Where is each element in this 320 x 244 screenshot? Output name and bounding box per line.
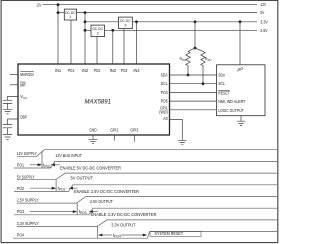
junction pullup split <box>194 47 197 50</box>
svg-text:MARGIN: MARGIN <box>20 72 34 77</box>
wire uP supply <box>239 22 241 65</box>
svg-text:PO1: PO1 <box>17 162 25 167</box>
svg-text:SCL: SCL <box>161 81 168 86</box>
svg-text:IN1: IN1 <box>55 68 62 73</box>
svg-text:DC-DC: DC-DC <box>92 27 103 31</box>
junction SDA pullup <box>187 74 190 77</box>
ref line tPD1 <box>41 151 43 168</box>
ref line tPD3 <box>76 203 78 215</box>
svg-text:PO2: PO2 <box>94 68 101 73</box>
junction 5V/IN2 <box>84 11 87 14</box>
ref line tPO4 <box>97 227 99 239</box>
wire 2.5V rail <box>105 29 258 31</box>
junction 3.3V/pullups <box>194 20 197 23</box>
junction 2.5V/IN3 <box>111 29 114 32</box>
wire SCL <box>170 83 217 85</box>
svg-text:5V OUTPUT: 5V OUTPUT <box>71 176 94 182</box>
svg-text:µP: µP <box>237 67 243 72</box>
svg-text:SDA: SDA <box>161 73 168 78</box>
svg-text:ENABLE 3.3V DC-DC CONVERTER: ENABLE 3.3V DC-DC CONVERTER <box>91 212 157 218</box>
svg-text:SYSTEM RESET: SYSTEM RESET <box>155 231 184 237</box>
svg-text:PO4: PO4 <box>17 233 25 238</box>
dc-dc converter 3 <box>119 17 133 29</box>
ref line tPD2 <box>55 180 57 192</box>
wire DC-DC2 input <box>85 29 91 31</box>
svg-text:PO2: PO2 <box>17 186 25 191</box>
capacitor C1 <box>3 100 12 103</box>
wire IN2 vertical <box>84 13 86 64</box>
wire A0 <box>170 119 183 140</box>
svg-text:ENABLE 5V DC-DC CONVERTER: ENABLE 5V DC-DC CONVERTER <box>60 166 121 172</box>
wire PO5/NMI <box>170 100 217 102</box>
ground uP <box>237 121 245 125</box>
svg-text:PO3: PO3 <box>121 68 128 73</box>
svg-text:PO5: PO5 <box>161 99 168 104</box>
IC U1 MAX5891 <box>18 64 170 135</box>
svg-text:12V: 12V <box>36 2 41 7</box>
svg-text:RESET: RESET <box>218 90 230 95</box>
svg-text:MR: MR <box>20 82 25 87</box>
svg-text:3.3V: 3.3V <box>260 19 268 24</box>
wire pullup feed <box>194 22 196 48</box>
svg-text:2: 2 <box>97 32 99 36</box>
svg-text:12V SUPPLY: 12V SUPPLY <box>17 151 37 156</box>
svg-text:2.5V OUTPUT: 2.5V OUTPUT <box>90 199 113 205</box>
svg-text:SDA: SDA <box>218 73 225 78</box>
junction DC-DC2 input tap <box>84 29 87 32</box>
ground DBP <box>3 134 12 139</box>
wire PO4/RESET <box>170 91 217 93</box>
svg-text:3.3V SUPPLY: 3.3V SUPPLY <box>17 221 39 226</box>
svg-text:IN2: IN2 <box>82 68 89 73</box>
svg-text:PO1: PO1 <box>68 68 75 73</box>
svg-text:2.5V: 2.5V <box>260 28 267 33</box>
svg-text:12V: 12V <box>260 2 266 7</box>
wire PO1 vertical <box>70 20 72 64</box>
wire 3.3V rail <box>132 21 257 23</box>
svg-text:1: 1 <box>69 15 71 19</box>
junction 3.3V/IN4 <box>135 20 138 23</box>
svg-text:DBP: DBP <box>20 115 27 120</box>
wire GPI1/LOGIC <box>170 109 217 111</box>
wire SDA <box>170 74 217 76</box>
capacitor C2 <box>3 125 12 128</box>
svg-text:3: 3 <box>124 24 126 28</box>
resistor RPU (SCL) <box>201 51 205 83</box>
svg-text:(WD): (WD) <box>159 110 168 115</box>
wire split to R left <box>188 48 195 51</box>
microprocessor uP <box>217 65 266 116</box>
svg-text:3.3V OUTPUT: 3.3V OUTPUT <box>111 222 135 228</box>
svg-text:SCL: SCL <box>218 81 225 86</box>
wire DC-DC3 input <box>85 21 119 23</box>
ground GND <box>89 139 97 143</box>
svg-text:MAX5891: MAX5891 <box>85 99 112 106</box>
wire uP ground <box>240 116 242 122</box>
svg-text:PO4: PO4 <box>161 90 168 95</box>
junction 12V/IN1 <box>57 3 60 6</box>
svg-text:A0: A0 <box>163 116 168 121</box>
wire DC-DC1 input <box>58 12 64 14</box>
svg-text:NMI, WD ALERT: NMI, WD ALERT <box>218 99 245 104</box>
wire 12V rail <box>43 4 258 6</box>
resistor RPU (SDA) <box>186 51 190 75</box>
svg-text:GND: GND <box>89 127 96 132</box>
svg-text:2.5V SUPPLY: 2.5V SUPPLY <box>17 198 39 203</box>
wire 5V rail <box>77 12 257 14</box>
wire PO3 vertical <box>123 29 125 64</box>
svg-text:GPI2: GPI2 <box>110 127 118 132</box>
ground VCC <box>3 109 12 114</box>
wire IN1 vertical <box>57 5 59 64</box>
svg-text:IN3: IN3 <box>110 68 117 73</box>
wire IN4 vertical <box>136 22 138 64</box>
dc-dc converter 1 <box>64 9 76 20</box>
junction DC-DC3 input tap <box>84 20 87 23</box>
svg-text:DC-DC: DC-DC <box>120 19 131 23</box>
junction SCL pullup <box>202 82 205 85</box>
wire IN3 vertical <box>112 30 114 64</box>
dc-dc converter 2 <box>91 25 105 36</box>
svg-text:IN4: IN4 <box>133 68 140 73</box>
wire PO2 vertical <box>96 37 98 64</box>
svg-text:5V SUPPLY: 5V SUPPLY <box>17 174 35 179</box>
svg-text:LOGIC OUTPUT: LOGIC OUTPUT <box>218 108 244 113</box>
wire split to R right <box>195 48 203 51</box>
system reset box <box>150 231 201 236</box>
svg-text:5V: 5V <box>260 10 264 15</box>
svg-text:PO3: PO3 <box>17 209 25 214</box>
svg-text:GPI3: GPI3 <box>130 127 138 132</box>
junction DC-DC1 input tap <box>57 11 60 14</box>
svg-text:DC-DC: DC-DC <box>65 11 76 15</box>
svg-text:ENABLE 2.5V DC-DC CONVERTER: ENABLE 2.5V DC-DC CONVERTER <box>74 189 139 195</box>
junction 3.3V/uP <box>239 20 242 23</box>
svg-text:12V BUS INPUT: 12V BUS INPUT <box>55 153 82 159</box>
ground A0 <box>178 140 186 144</box>
